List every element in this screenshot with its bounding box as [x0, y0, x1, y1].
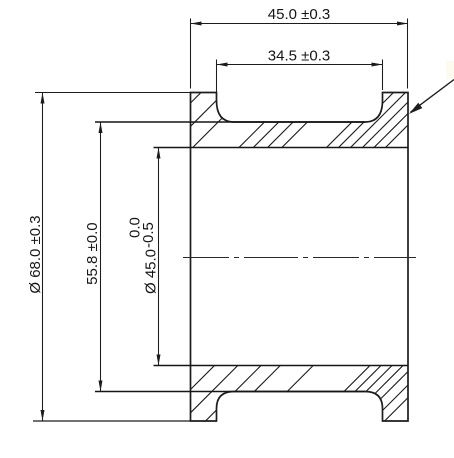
- dimension Ø45.0 0.0/-0.5 : dimension line: [158, 148, 160, 366]
- top groove bottom line (also 55.8 top extension): [95, 121, 365, 123]
- dimension 45.0 ±0.3 : extension line right: [407, 19, 409, 89]
- dimension Ø68.0 ±0.3 : dimension line: [42, 93, 44, 422]
- dimension Ø68.0 ±0.3 : bottom arrowhead: [41, 410, 45, 421]
- dimension Ø45.0 0.0/-0.5 : bottom arrowhead: [157, 355, 161, 366]
- dimension 55.8 ±0.0 : dimension line: [100, 122, 102, 392]
- dimension 55.8 ±0.0 : top arrowhead: [99, 122, 103, 133]
- dimension 34.5 ±0.3 : left arrowhead: [217, 63, 228, 67]
- dimension Ø45.0 0.0/-0.5 : top arrowhead: [157, 148, 161, 159]
- svg-text:0.0: 0.0: [127, 217, 144, 238]
- leader line top right: [411, 80, 454, 113]
- hatching bottom flange band: [150, 350, 454, 430]
- faint yellow highlight patch top-right: [446, 61, 454, 79]
- svg-text:Ø 68.0 ±0.3: Ø 68.0 ±0.3: [27, 215, 44, 293]
- dimension 34.5 ±0.3 : dimension line: [217, 64, 383, 66]
- svg-text:45.0 ±0.3: 45.0 ±0.3: [268, 6, 330, 23]
- dimension Ø45.0 0.0/-0.5 : text (rotated, stacked tolerance): [127, 217, 160, 294]
- dimension 55.8 ±0.0 : bottom arrowhead: [99, 381, 103, 392]
- dimension 45.0 ±0.3 : extension line left: [190, 19, 192, 89]
- dimension 34.5 ±0.3 : extension line left: [216, 60, 218, 93]
- hatching top flange band: [134, 80, 454, 160]
- dimension 34.5 ±0.3 : extension line right: [382, 60, 384, 91]
- dimension Ø68.0 ±0.3 : extension line top: [35, 92, 191, 94]
- svg-text:55.8 ±0.0: 55.8 ±0.0: [84, 222, 101, 284]
- bore top edge line (also Ø45 top extension): [154, 147, 409, 149]
- centerline (dash-dot axis): [183, 257, 416, 259]
- dimension 45.0 ±0.3 : dimension line: [191, 23, 409, 25]
- dimension 45.0 ±0.3 : right arrowhead: [397, 22, 408, 26]
- part outline (pulley cross-section): [191, 93, 409, 422]
- dimension 34.5 ±0.3 : right arrowhead: [372, 63, 383, 67]
- bottom groove bottom line (also 55.8 bottom extension): [95, 391, 365, 393]
- leader arrowhead: [409, 103, 422, 114]
- svg-text:Ø 45.0: Ø 45.0: [143, 249, 160, 294]
- dimension 45.0 ±0.3 : left arrowhead: [191, 22, 202, 26]
- svg-text:34.5 ±0.3: 34.5 ±0.3: [268, 47, 330, 64]
- dimension Ø68.0 ±0.3 : extension line bottom: [33, 420, 191, 422]
- dimension Ø68.0 ±0.3 : top arrowhead: [41, 93, 45, 104]
- bore bottom edge line (also Ø45 bottom extension): [154, 365, 409, 367]
